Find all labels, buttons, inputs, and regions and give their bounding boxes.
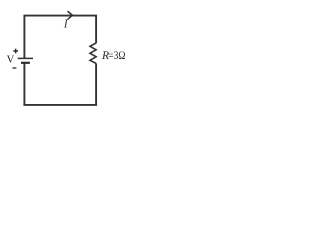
wire bottom [24, 103, 96, 105]
minus sign of source [12, 67, 16, 69]
battery V positive plate (long thin) [18, 57, 33, 59]
wire left lower (bottom node to battery - plate) [23, 63, 25, 105]
wire right upper (top node to resistor) [95, 16, 97, 44]
battery V negative plate (short thick) [21, 62, 30, 64]
current arrow I [68, 12, 72, 20]
plus sign of source [13, 49, 18, 54]
wire left upper (battery + plate to top node) [23, 16, 25, 59]
resistor R1 zigzag [90, 43, 96, 63]
wire right lower (resistor to bottom node) [95, 63, 97, 105]
svg-text:V: V [7, 55, 15, 66]
wire top (node between source + and resistor) [24, 16, 96, 17]
svg-text:R=3Ω: R=3Ω [101, 49, 126, 62]
